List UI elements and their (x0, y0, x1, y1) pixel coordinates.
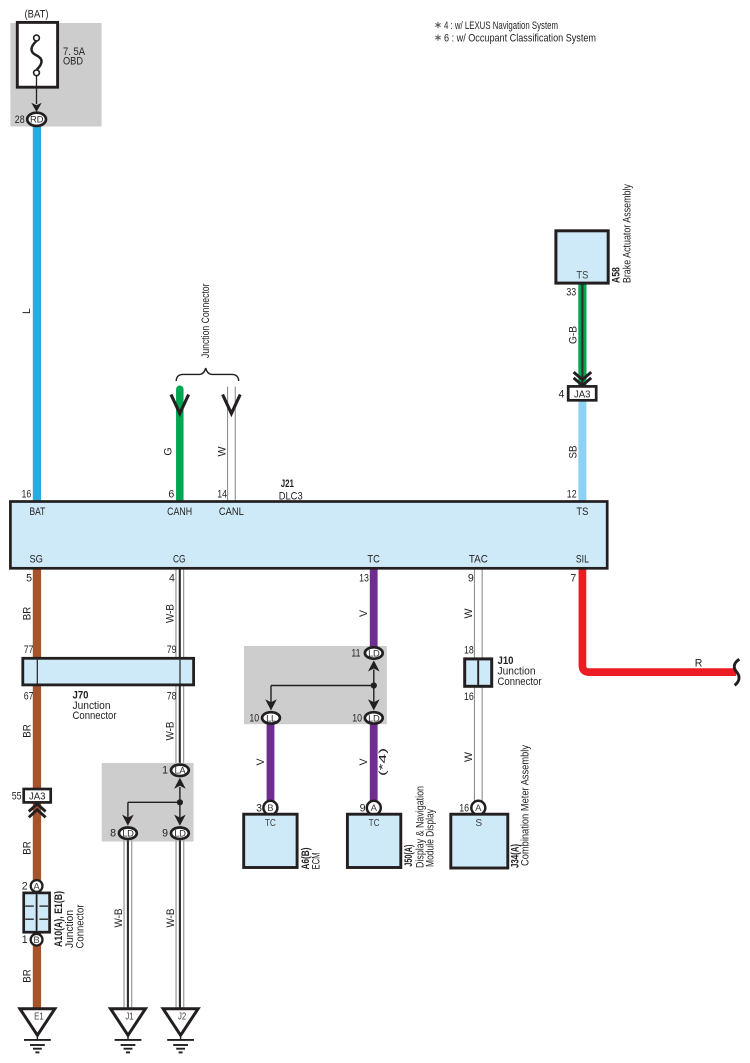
svg-text:S: S (475, 818, 482, 829)
svg-text:V: V (358, 758, 370, 766)
wire W-B CG from J21 pin 4 through J70 to LA (175, 568, 177, 763)
svg-text:7: 7 (570, 572, 576, 584)
svg-text:W: W (217, 447, 229, 457)
svg-text:OBD: OBD (63, 56, 83, 68)
shading behind TC junction group (244, 646, 387, 724)
svg-text:W-B: W-B (165, 722, 177, 741)
double chevron out of JA3 55 (29, 804, 46, 812)
connector J21 DLC3 (10, 502, 607, 569)
svg-text:W-B: W-B (165, 604, 177, 623)
wire V from LD 10 to J50 pin 9 (370, 725, 378, 803)
wire L (blue) BAT feed from OBD fuse to J21 pin 16 (33, 127, 41, 503)
svg-text:A: A (475, 803, 482, 814)
double chevron into JA3 (574, 372, 592, 380)
svg-text:DLC3: DLC3 (279, 490, 303, 502)
svg-text:SIL: SIL (576, 554, 589, 566)
wire BR (brown) SG ground run (33, 568, 41, 1009)
svg-text:LL: LL (266, 712, 276, 723)
svg-text:R: R (695, 658, 703, 670)
svg-text:BAT: BAT (30, 506, 46, 518)
terminal circle B (E1) (31, 934, 43, 946)
off-page break symbol on wire R (734, 659, 739, 685)
svg-text:33: 33 (566, 287, 576, 299)
arrow down into LL 10 (265, 699, 277, 710)
wire G (green) CANH into J21 pin 6 (176, 389, 184, 502)
svg-text:BR: BR (22, 606, 34, 620)
svg-text:TAC: TAC (469, 554, 488, 566)
ground E1 (20, 1009, 55, 1036)
svg-text:TC: TC (369, 818, 380, 829)
svg-text:4: 4 (169, 572, 175, 584)
svg-text:5: 5 (26, 572, 32, 584)
arrow up into LA (174, 778, 186, 789)
terminal circle A (J50) (367, 801, 381, 815)
svg-text:J1: J1 (125, 1012, 133, 1023)
svg-text:16: 16 (22, 488, 32, 500)
svg-text:TS: TS (576, 506, 588, 518)
svg-text:LA: LA (174, 765, 186, 776)
arrow down into LD 9 (174, 815, 186, 826)
svg-text:14: 14 (217, 488, 227, 500)
connector link line (179, 787, 181, 802)
svg-text:77: 77 (24, 644, 34, 656)
svg-text:G-B: G-B (567, 326, 579, 344)
arrow down into LD 10 (368, 699, 380, 710)
svg-text:6 : w/ Occupant Classification: 6 : w/ Occupant Classification System (444, 32, 596, 44)
wire W (white) CANL into J21 pin 14 (227, 387, 229, 503)
terminal circle B (ECM) (263, 801, 277, 815)
component A58 Brake Actuator Assembly (556, 231, 608, 283)
svg-text:78: 78 (167, 691, 177, 703)
note marker star 2 (435, 35, 440, 41)
svg-text:18: 18 (464, 645, 474, 657)
svg-text:SB: SB (567, 446, 579, 459)
junction node dot (371, 682, 377, 688)
svg-text:1: 1 (22, 934, 28, 946)
svg-text:Junction Connector: Junction Connector (200, 283, 212, 358)
link line (373, 670, 375, 686)
shading behind OBD fuse block (10, 23, 101, 127)
link line across (128, 801, 180, 803)
svg-text:JA3: JA3 (29, 792, 46, 803)
component A6(B) ECM (244, 814, 297, 867)
svg-text:JA3: JA3 (574, 389, 591, 400)
svg-text:TC: TC (367, 554, 380, 566)
svg-text:79: 79 (167, 644, 177, 656)
svg-text:Brake Actuator Assembly: Brake Actuator Assembly (622, 184, 634, 284)
svg-text:4: 4 (558, 388, 564, 400)
arrow up into LD 11 (368, 660, 380, 671)
svg-text:W-B: W-B (165, 909, 177, 928)
svg-text:6: 6 (168, 488, 174, 500)
arrow down into LD 8 (122, 815, 134, 826)
svg-text:2: 2 (22, 880, 28, 892)
svg-text:CANH: CANH (167, 506, 192, 518)
component J50(A) Display & Navigation Module Display (347, 814, 400, 867)
wire SB from JA3 to J21 pin 12 TS (578, 400, 586, 502)
link line down to LD 9 (179, 802, 181, 818)
ground J2 (163, 1009, 198, 1036)
link line down to LD 10 (373, 686, 375, 703)
wire W TAC from J10 pin 16 to combination meter (473, 686, 475, 802)
svg-text:TS: TS (576, 270, 588, 282)
brace over CAN junction wires (176, 368, 239, 381)
note marker star 1 (435, 22, 440, 28)
svg-text:J21: J21 (281, 478, 294, 490)
svg-text:J2: J2 (178, 1012, 186, 1023)
svg-text:Combination Meter Assembly: Combination Meter Assembly (519, 744, 531, 866)
svg-text:(BAT): (BAT) (25, 9, 49, 21)
wire W-B from LD 8 to ground J1 (123, 840, 125, 1008)
svg-text:RD: RD (30, 115, 44, 126)
svg-text:9: 9 (468, 572, 474, 584)
svg-text:16: 16 (464, 691, 474, 703)
fuse 7.5A OBD box (17, 22, 57, 87)
wire V from J21 pin 13 TC to LD 11 (370, 568, 378, 647)
svg-text:V: V (255, 758, 267, 766)
svg-text:W: W (463, 752, 475, 762)
svg-text:L: L (21, 308, 33, 314)
link line down to LL 10 (270, 686, 272, 703)
chevron arrow on CANL wire (223, 395, 241, 414)
junction connector J10 (465, 659, 492, 686)
svg-text:55: 55 (12, 791, 22, 803)
svg-text:LD: LD (368, 647, 380, 658)
svg-text:TC: TC (265, 818, 276, 829)
svg-text:10: 10 (249, 712, 259, 724)
svg-text:LD: LD (174, 828, 186, 839)
fuse element symbol (31, 41, 41, 70)
svg-text:ECM: ECM (311, 853, 323, 870)
component J34(A) Combination Meter Assembly (451, 814, 508, 868)
arrow into terminal 28 (31, 103, 41, 112)
svg-text:A58: A58 (610, 267, 622, 283)
svg-text:4 : w/ LEXUS Navigation System: 4 : w/ LEXUS Navigation System (444, 20, 558, 32)
svg-text:E1: E1 (34, 1012, 44, 1023)
svg-text:LD: LD (122, 828, 134, 839)
ground J1 (111, 1009, 146, 1036)
svg-text:BR: BR (22, 841, 34, 855)
svg-text:G: G (162, 447, 174, 455)
junction connector A10(A) E1(B) (24, 893, 50, 932)
junction connector JA3 (pin 4) (568, 386, 596, 400)
svg-text:Connector: Connector (73, 710, 117, 722)
svg-text:8: 8 (110, 828, 116, 840)
wire V from LL 10 to ECM pin 3 (267, 725, 275, 803)
svg-text:A: A (33, 881, 40, 892)
svg-text:(*4): (*4) (378, 748, 389, 776)
svg-text:LD: LD (368, 712, 380, 723)
svg-text:J50(A): J50(A) (403, 845, 415, 867)
junction node dot (177, 799, 183, 805)
svg-text:67: 67 (24, 691, 34, 703)
chevron arrow on CANH wire (171, 395, 189, 414)
svg-text:28: 28 (15, 114, 25, 126)
svg-text:1: 1 (162, 765, 168, 777)
wire G-B from A58 pin 33 to JA3 (578, 283, 586, 387)
svg-text:V: V (358, 609, 370, 617)
svg-text:W-B: W-B (113, 909, 125, 928)
svg-text:10: 10 (352, 712, 362, 724)
terminal circle A (A10) (31, 880, 43, 892)
svg-text:CG: CG (173, 554, 186, 566)
svg-text:CANL: CANL (219, 506, 244, 518)
link line across (271, 685, 374, 687)
svg-text:9: 9 (162, 828, 168, 840)
svg-text:13: 13 (359, 572, 369, 584)
wire W-B from LD 9 to ground J2 (175, 840, 177, 1008)
terminal oval RD (27, 113, 46, 126)
svg-text:11: 11 (351, 648, 360, 660)
wire R SIL from J21 pin 7 off-page (582, 568, 736, 672)
wire W TAC from J21 pin 9 to J10 (473, 568, 475, 659)
svg-text:12: 12 (567, 488, 577, 500)
lead from fuse to terminal 28 (36, 76, 38, 104)
svg-text:W: W (463, 609, 475, 619)
svg-text:Module Display: Module Display (424, 808, 436, 867)
terminal circle A (J34) (471, 801, 485, 815)
svg-text:A: A (371, 803, 378, 814)
svg-text:SG: SG (29, 554, 43, 566)
svg-text:B: B (33, 935, 39, 946)
svg-text:BR: BR (22, 969, 34, 983)
svg-text:BR: BR (22, 724, 34, 738)
link line down to LD 8 (127, 802, 129, 818)
svg-text:B: B (267, 803, 273, 814)
svg-text:Connector: Connector (498, 676, 542, 688)
shading behind lower-left junction group (102, 763, 194, 842)
svg-text:Connector: Connector (74, 904, 86, 948)
